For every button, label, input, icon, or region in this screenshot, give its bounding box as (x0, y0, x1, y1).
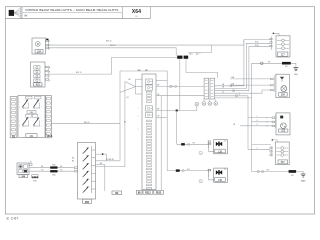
svg-text:4: 4 (267, 122, 268, 124)
svg-text:R212: R212 (145, 193, 151, 195)
svg-text:807 D: 807 D (76, 72, 82, 74)
svg-text:1: 1 (267, 118, 268, 120)
svg-text:A2: A2 (129, 78, 131, 81)
svg-text:B7 A5 8L: B7 A5 8L (106, 158, 114, 161)
svg-text:RG2: RG2 (255, 42, 259, 44)
svg-text:B4: B4 (72, 161, 74, 163)
svg-text:2: 2 (138, 108, 139, 110)
svg-text:A8: A8 (100, 162, 102, 165)
svg-text:MH: MH (294, 74, 298, 76)
svg-text:DIPPED BEAM HEADLIGHTS – MAIN: DIPPED BEAM HEADLIGHTS – MAIN BEAM HEADL… (25, 8, 118, 12)
svg-text:36 8: 36 8 (189, 54, 193, 56)
svg-text:3: 3 (267, 126, 268, 128)
svg-text:4: 4 (138, 116, 139, 118)
svg-text:131: 131 (29, 135, 34, 138)
svg-text:840 D: 840 D (84, 122, 90, 124)
svg-text:B1: B1 (124, 122, 126, 124)
svg-text:260: 260 (85, 201, 90, 204)
svg-text:MAS: MAS (301, 180, 306, 183)
svg-text:11: 11 (224, 141, 226, 143)
svg-text:3: 3 (257, 124, 258, 126)
svg-text:R213: R213 (156, 193, 162, 195)
svg-text:B7: B7 (127, 97, 129, 99)
svg-text:8 2-67: 8 2-67 (7, 217, 19, 221)
svg-text:AV: AV (24, 14, 27, 17)
svg-text:RG4: RG4 (255, 45, 259, 47)
svg-text:4: 4 (257, 120, 258, 122)
svg-text:4: 4 (239, 94, 240, 96)
svg-text:R36: R36 (52, 175, 55, 177)
svg-text:1: 1 (49, 41, 50, 43)
svg-text:845 D: 845 D (106, 40, 112, 42)
svg-text:6: 6 (138, 129, 139, 131)
svg-text:B5: B5 (72, 158, 74, 160)
svg-text:R36: R36 (52, 165, 55, 167)
svg-text:227: 227 (281, 54, 286, 57)
svg-text:X64: X64 (132, 9, 141, 15)
svg-text:3: 3 (49, 48, 50, 50)
svg-text:2: 2 (257, 148, 258, 150)
svg-text:184: 184 (37, 50, 42, 53)
svg-text:1: 1 (257, 116, 258, 118)
svg-text:131A: 131A (47, 135, 53, 138)
svg-text:809 D: 809 D (110, 45, 116, 47)
svg-text:11: 11 (224, 169, 226, 171)
